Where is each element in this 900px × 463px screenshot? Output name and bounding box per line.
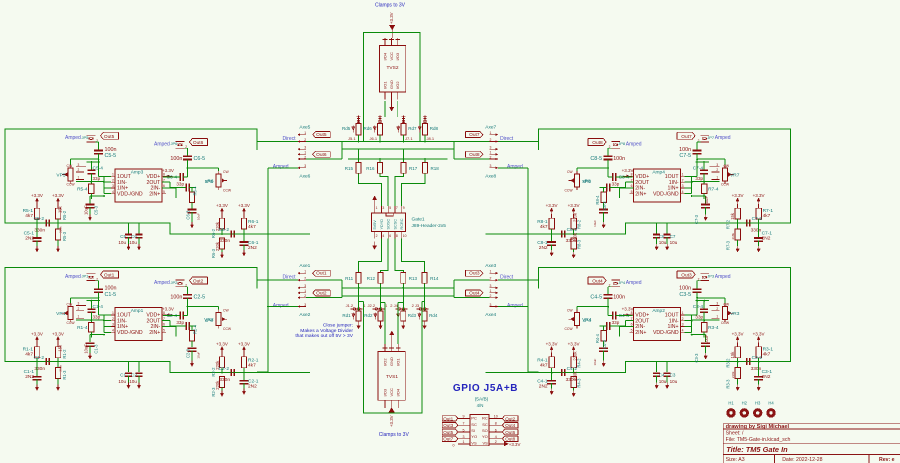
- svg-text:Out7: Out7: [443, 437, 453, 442]
- svg-text:VCC: VCC: [389, 388, 394, 397]
- svg-text:Amp1: Amp1: [131, 308, 144, 314]
- svg-text:4k7: 4k7: [248, 224, 256, 230]
- svg-text:TVS1: TVS1: [386, 374, 398, 380]
- svg-text:10uF: 10uF: [84, 344, 89, 354]
- svg-text:+3.3V: +3.3V: [31, 332, 43, 337]
- svg-text:10u: 10u: [129, 240, 137, 245]
- svg-text:C8-4: C8-4: [619, 175, 630, 181]
- svg-text:GPIO J5A+B: GPIO J5A+B: [453, 383, 518, 394]
- svg-text:1: 1: [304, 270, 306, 274]
- svg-text:Clamps to 3V: Clamps to 3V: [375, 2, 406, 8]
- svg-text:4k7: 4k7: [763, 213, 771, 219]
- svg-text:4/N: 4/N: [477, 403, 484, 408]
- svg-text:3: 3: [78, 302, 80, 306]
- svg-text:CW: CW: [223, 309, 229, 313]
- svg-text:10uF: 10uF: [593, 220, 597, 227]
- svg-text:R7-3: R7-3: [726, 240, 731, 250]
- svg-text:10uF: 10uF: [593, 358, 597, 365]
- svg-text:Rd6: Rd6: [364, 126, 373, 131]
- svg-text:Clamps to 3V: Clamps to 3V: [379, 432, 410, 438]
- svg-text:+3.3V: +3.3V: [753, 193, 765, 198]
- svg-text:2: 2: [490, 155, 492, 159]
- svg-text:CCW: CCW: [721, 182, 730, 186]
- svg-text:xP0: xP0: [205, 318, 214, 324]
- svg-text:2N2: 2N2: [539, 245, 548, 251]
- svg-text:Out6: Out6: [193, 140, 204, 146]
- svg-text:8: 8: [631, 311, 633, 315]
- svg-text:C3-5: C3-5: [679, 292, 691, 298]
- svg-text:5V5V: 5V5V: [373, 220, 377, 230]
- svg-text:10u: 10u: [129, 379, 137, 384]
- svg-text:J2.2: J2.2: [368, 303, 376, 308]
- svg-text:RC: RC: [482, 416, 488, 421]
- svg-text:VR1: VR1: [56, 311, 66, 317]
- svg-text:2N2: 2N2: [248, 245, 257, 251]
- svg-text:JP3: JP3: [707, 274, 715, 279]
- svg-text:Direct: Direct: [500, 274, 514, 280]
- svg-text:CCW: CCW: [721, 321, 730, 325]
- svg-text:1: 1: [682, 311, 684, 315]
- svg-text:VS: VS: [471, 440, 477, 445]
- svg-text:Amped: Amped: [507, 164, 523, 170]
- svg-text:7: 7: [396, 206, 398, 210]
- svg-text:C4-2: C4-2: [567, 366, 578, 372]
- svg-text:Amped: Amped: [273, 303, 289, 309]
- svg-text:JP6: JP6: [171, 141, 179, 146]
- svg-text:Out5: Out5: [443, 430, 453, 435]
- svg-text:C2-4: C2-4: [167, 313, 178, 319]
- svg-text:3: 3: [304, 303, 306, 307]
- svg-text:JP8: JP8: [618, 141, 626, 146]
- svg-text:Out8: Out8: [592, 140, 603, 146]
- svg-text:Rd3: Rd3: [408, 313, 417, 318]
- svg-text:5: 5: [631, 190, 633, 194]
- svg-text:+3.3V: +3.3V: [216, 342, 228, 347]
- svg-text:File: TM5-Gate-in.kicad_sch: File: TM5-Gate-in.kicad_sch: [726, 437, 791, 443]
- svg-text:10u: 10u: [659, 240, 667, 245]
- svg-text:R5-4: R5-4: [77, 186, 88, 192]
- svg-text:R3-3: R3-3: [726, 379, 731, 389]
- svg-text:C5-2: C5-2: [34, 216, 45, 222]
- svg-text:R5-2: R5-2: [62, 210, 67, 220]
- svg-text:Out4: Out4: [592, 279, 603, 285]
- svg-text:15k: 15k: [730, 351, 735, 359]
- svg-text:4k7: 4k7: [25, 213, 33, 219]
- svg-text:2: 2: [112, 178, 114, 182]
- svg-text:R18: R18: [431, 166, 440, 171]
- svg-text:Out2: Out2: [316, 290, 327, 296]
- svg-text:10u: 10u: [659, 379, 667, 384]
- svg-text:2: 2: [682, 317, 684, 321]
- svg-text:VDD-/GND: VDD-/GND: [653, 330, 679, 336]
- svg-text:Axe6: Axe6: [299, 173, 310, 179]
- svg-text:C2-2: C2-2: [219, 366, 230, 372]
- svg-text:C1-5: C1-5: [105, 292, 117, 298]
- svg-text:SI: SI: [471, 428, 475, 433]
- svg-text:1: 1: [304, 151, 306, 155]
- svg-text:Amped: Amped: [626, 280, 642, 286]
- svg-text:7: 7: [463, 422, 465, 426]
- svg-text:5: 5: [389, 206, 391, 210]
- svg-text:+3.3V: +3.3V: [52, 332, 64, 337]
- svg-text:0: 0: [453, 443, 455, 447]
- svg-text:10uF: 10uF: [704, 334, 709, 344]
- svg-text:2: 2: [490, 294, 492, 298]
- svg-text:Rd1: Rd1: [342, 313, 351, 318]
- svg-text:Out2: Out2: [193, 279, 204, 285]
- svg-text:6: 6: [495, 428, 497, 432]
- svg-text:PC: PC: [471, 416, 477, 421]
- svg-text:1: 1: [78, 314, 80, 318]
- svg-text:2IN+: 2IN+: [635, 191, 646, 197]
- svg-text:C6-3: C6-3: [186, 210, 191, 220]
- svg-text:4: 4: [682, 190, 684, 194]
- svg-text:R11: R11: [345, 276, 353, 281]
- svg-text:C1-3: C1-3: [94, 344, 99, 354]
- svg-text:100n: 100n: [170, 156, 182, 162]
- svg-text:SCSC: SCSC: [393, 219, 397, 230]
- svg-text:RCRC: RCRC: [400, 218, 404, 229]
- svg-text:CW: CW: [567, 170, 573, 174]
- svg-text:Close jumper:: Close jumper:: [323, 322, 353, 328]
- svg-text:10u: 10u: [670, 240, 678, 245]
- svg-text:C6-5: C6-5: [194, 156, 206, 162]
- svg-text:5: 5: [631, 329, 633, 333]
- svg-text:VR3: VR3: [730, 311, 740, 317]
- svg-text:1: 1: [463, 440, 465, 444]
- svg-text:Date: 2022-12-28: Date: 2022-12-28: [782, 457, 822, 463]
- svg-text:Amped: Amped: [154, 280, 170, 286]
- svg-text:I/O4: I/O4: [382, 52, 387, 60]
- svg-text:C2-5: C2-5: [194, 295, 206, 301]
- svg-text:Amped: Amped: [715, 135, 731, 141]
- svg-text:Axe3: Axe3: [485, 263, 496, 269]
- svg-text:Direct: Direct: [500, 136, 514, 142]
- svg-text:R8-4: R8-4: [595, 195, 600, 205]
- svg-text:C7-3: C7-3: [694, 214, 699, 224]
- svg-text:+3.3V: +3.3V: [162, 307, 174, 312]
- svg-text:+3.3V: +3.3V: [389, 12, 394, 24]
- svg-text:Amp2: Amp2: [652, 308, 665, 314]
- svg-text:+3.3V: +3.3V: [732, 332, 744, 337]
- svg-text:Amped: Amped: [273, 164, 289, 170]
- svg-text:100n: 100n: [105, 286, 117, 292]
- svg-text:Axe5: Axe5: [299, 125, 310, 131]
- svg-text:1: 1: [490, 131, 492, 135]
- svg-text:Out4: Out4: [469, 290, 480, 296]
- svg-text:3: 3: [682, 323, 684, 327]
- svg-text:I/O3: I/O3: [382, 388, 387, 396]
- svg-text:8: 8: [631, 173, 633, 177]
- svg-text:(5A/B): (5A/B): [475, 397, 489, 403]
- svg-text:1: 1: [376, 206, 378, 210]
- svg-text:8: 8: [163, 173, 165, 177]
- svg-text:+3.3V: +3.3V: [753, 332, 765, 337]
- svg-text:2: 2: [490, 138, 492, 142]
- svg-text:3: 3: [490, 284, 492, 288]
- svg-text:Size: A3: Size: A3: [726, 457, 745, 463]
- svg-text:H1: H1: [728, 401, 734, 406]
- svg-text:VP5: VP5: [56, 173, 65, 179]
- svg-text:4k7: 4k7: [248, 363, 256, 369]
- svg-text:Rd8: Rd8: [430, 126, 439, 131]
- svg-text:+3.3V: +3.3V: [622, 168, 634, 173]
- svg-text:J7.1: J7.1: [405, 136, 413, 141]
- svg-text:CCW: CCW: [223, 188, 232, 192]
- svg-text:R14: R14: [430, 276, 439, 281]
- svg-text:3: 3: [304, 164, 306, 168]
- svg-text:GND: GND: [389, 80, 394, 89]
- svg-text:Out6: Out6: [505, 430, 515, 435]
- svg-text:Out5: Out5: [104, 134, 115, 140]
- svg-text:R8-3: R8-3: [577, 239, 582, 249]
- svg-text:100n: 100n: [170, 295, 182, 301]
- svg-text:H4: H4: [768, 401, 774, 406]
- svg-text:+3.3V: +3.3V: [546, 342, 558, 347]
- svg-text:Out3: Out3: [681, 272, 692, 278]
- svg-text:100n: 100n: [679, 147, 691, 153]
- svg-text:CW: CW: [723, 164, 729, 168]
- svg-text:33p: 33p: [176, 320, 184, 325]
- svg-text:4: 4: [682, 329, 684, 333]
- svg-text:Gate1: Gate1: [412, 216, 425, 222]
- svg-text:C7-2: C7-2: [752, 216, 763, 222]
- svg-text:JP4: JP4: [618, 280, 626, 285]
- svg-text:Out3: Out3: [443, 423, 453, 428]
- svg-text:1: 1: [304, 131, 306, 135]
- svg-text:Amped: Amped: [154, 141, 170, 147]
- svg-text:4k7: 4k7: [540, 224, 548, 230]
- svg-text:I/O1: I/O1: [382, 81, 387, 89]
- svg-text:9: 9: [403, 206, 405, 210]
- svg-text:3: 3: [490, 164, 492, 168]
- svg-text:2: 2: [304, 138, 306, 142]
- svg-text:I/O4: I/O4: [396, 388, 401, 396]
- svg-text:I/O1: I/O1: [396, 358, 401, 366]
- svg-text:Axe2: Axe2: [299, 312, 310, 318]
- svg-text:C5-3: C5-3: [94, 205, 99, 215]
- svg-text:R2-2: R2-2: [211, 367, 216, 377]
- svg-text:4k7: 4k7: [763, 352, 771, 358]
- svg-text:5: 5: [463, 428, 465, 432]
- svg-text:C3-2: C3-2: [752, 355, 763, 361]
- svg-text:4: 4: [382, 234, 384, 238]
- svg-text:I/O2: I/O2: [395, 81, 400, 89]
- svg-text:+3.3V: +3.3V: [389, 415, 394, 427]
- svg-text:R7-4: R7-4: [708, 186, 719, 192]
- svg-text:Sheet: /: Sheet: /: [726, 430, 744, 436]
- svg-text:SC: SC: [482, 422, 488, 427]
- svg-text:C7-5: C7-5: [679, 153, 691, 159]
- svg-text:JP1: JP1: [82, 274, 90, 279]
- svg-text:C4-4: C4-4: [619, 313, 630, 319]
- svg-text:Out8: Out8: [469, 152, 480, 158]
- svg-text:CCW: CCW: [564, 188, 573, 192]
- svg-text:Out7: Out7: [469, 132, 480, 138]
- svg-text:Rd5: Rd5: [342, 126, 351, 131]
- svg-text:R1-4: R1-4: [77, 325, 88, 331]
- svg-text:330n: 330n: [34, 227, 45, 233]
- svg-text:2: 2: [112, 317, 114, 321]
- svg-text:3: 3: [490, 303, 492, 307]
- svg-text:33p: 33p: [612, 181, 620, 186]
- svg-text:R4-3: R4-3: [577, 378, 582, 388]
- svg-text:10u: 10u: [118, 379, 126, 384]
- svg-text:330n: 330n: [34, 366, 45, 372]
- svg-text:10uF: 10uF: [84, 205, 89, 215]
- svg-text:Out6: Out6: [316, 152, 327, 158]
- svg-text:2 J4: 2 J4: [390, 303, 398, 308]
- svg-text:2: 2: [716, 307, 718, 311]
- svg-text:Amped: Amped: [715, 274, 731, 280]
- svg-text:3: 3: [304, 146, 306, 150]
- svg-text:Amped: Amped: [626, 141, 642, 147]
- svg-text:9: 9: [463, 415, 465, 419]
- svg-text:2: 2: [304, 155, 306, 159]
- svg-text:R7-2: R7-2: [726, 219, 731, 229]
- svg-text:+3.3V: +3.3V: [568, 342, 580, 347]
- svg-text:33p: 33p: [612, 320, 620, 325]
- svg-text:3: 3: [112, 184, 114, 188]
- svg-text:3: 3: [304, 284, 306, 288]
- svg-text:1: 1: [716, 314, 718, 318]
- svg-text:Out1: Out1: [316, 271, 327, 277]
- svg-text:Out1: Out1: [104, 272, 115, 278]
- svg-text:GND: GND: [389, 357, 394, 366]
- svg-text:+3.3V: +3.3V: [216, 203, 228, 208]
- svg-text:Out7: Out7: [681, 134, 692, 140]
- svg-text:218k: 218k: [731, 371, 735, 378]
- svg-text:15k: 15k: [730, 212, 735, 220]
- svg-text:5: 5: [163, 329, 165, 333]
- svg-text:2N2: 2N2: [539, 384, 548, 390]
- svg-text:8: 8: [396, 234, 398, 238]
- svg-text:3: 3: [716, 163, 718, 167]
- svg-text:SOSC: SOSC: [387, 218, 391, 229]
- svg-text:C3: C3: [670, 373, 676, 378]
- svg-text:10uF: 10uF: [704, 196, 709, 206]
- svg-text:Axe4: Axe4: [485, 312, 496, 318]
- svg-text:+3.3V: +3.3V: [546, 203, 558, 208]
- svg-text:4: 4: [112, 329, 114, 333]
- svg-text:xP6: xP6: [205, 179, 214, 185]
- svg-text:3: 3: [463, 435, 465, 439]
- svg-text:3: 3: [78, 163, 80, 167]
- svg-text:C6-2: C6-2: [219, 227, 230, 233]
- svg-text:R4-2: R4-2: [577, 358, 582, 368]
- svg-text:Amped: Amped: [507, 303, 523, 309]
- svg-text:Out5: Out5: [316, 132, 327, 138]
- svg-text:2: 2: [304, 294, 306, 298]
- svg-text:R3-2: R3-2: [726, 358, 731, 368]
- svg-text:Direct: Direct: [282, 274, 296, 280]
- svg-text:1: 1: [112, 173, 114, 177]
- svg-text:5: 5: [163, 190, 165, 194]
- svg-text:+3.3V: +3.3V: [162, 168, 174, 173]
- svg-text:3: 3: [682, 184, 684, 188]
- svg-text:J5.1: J5.1: [348, 136, 356, 141]
- svg-text:2IN+: 2IN+: [149, 191, 160, 197]
- svg-text:+3.3V: +3.3V: [238, 203, 250, 208]
- svg-text:C3-3: C3-3: [694, 353, 699, 363]
- svg-text:+3.3V: +3.3V: [31, 193, 43, 198]
- svg-text:TVS2: TVS2: [387, 65, 399, 71]
- svg-text:R2-4: R2-4: [193, 324, 198, 334]
- svg-text:Out1: Out1: [443, 416, 453, 421]
- svg-text:2: 2: [495, 440, 497, 444]
- svg-text:3: 3: [382, 206, 384, 210]
- svg-text:+3.3V: +3.3V: [622, 307, 634, 312]
- svg-text:xP8: xP8: [583, 179, 592, 185]
- svg-text:3: 3: [490, 146, 492, 150]
- svg-text:R8-2: R8-2: [577, 219, 582, 229]
- svg-text:1: 1: [112, 311, 114, 315]
- svg-text:+3.3V: +3.3V: [509, 442, 521, 447]
- svg-text:1: 1: [490, 151, 492, 155]
- svg-text:C1-2: C1-2: [34, 355, 45, 361]
- svg-text:2N2: 2N2: [248, 384, 257, 390]
- svg-text:CCW: CCW: [564, 327, 573, 331]
- svg-text:33p: 33p: [176, 181, 184, 186]
- svg-text:R6-2: R6-2: [211, 228, 216, 238]
- svg-text:100n: 100n: [105, 147, 117, 153]
- svg-text:330n: 330n: [751, 227, 762, 233]
- svg-text:Axe1: Axe1: [299, 263, 310, 269]
- svg-text:VDD-/GND: VDD-/GND: [653, 191, 679, 197]
- svg-text:R5-3: R5-3: [62, 231, 67, 241]
- svg-text:Rd4: Rd4: [429, 313, 438, 318]
- svg-text:2: 2: [376, 234, 378, 238]
- svg-text:1: 1: [682, 173, 684, 177]
- svg-text:Axe7: Axe7: [485, 125, 496, 131]
- svg-text:2: 2: [304, 276, 306, 280]
- svg-text:+3.3V: +3.3V: [568, 203, 580, 208]
- svg-text:Out3: Out3: [469, 271, 480, 277]
- svg-text:1: 1: [78, 176, 80, 180]
- svg-text:2: 2: [78, 307, 80, 311]
- svg-text:CW: CW: [723, 303, 729, 307]
- svg-text:CW: CW: [567, 309, 573, 313]
- svg-text:2 J3: 2 J3: [412, 303, 420, 308]
- svg-text:R17: R17: [409, 166, 418, 171]
- svg-text:+3.3V: +3.3V: [238, 342, 250, 347]
- svg-text:10u: 10u: [118, 240, 126, 245]
- svg-text:C4-3: C4-3: [602, 339, 607, 349]
- svg-text:8: 8: [495, 422, 497, 426]
- svg-text:Rev: e: Rev: e: [879, 457, 895, 463]
- svg-text:4k7: 4k7: [540, 363, 548, 369]
- svg-text:J8.1: J8.1: [427, 136, 435, 141]
- svg-text:R6-4: R6-4: [193, 186, 198, 196]
- svg-text:R6-3: R6-3: [211, 248, 216, 258]
- svg-text:10uF: 10uF: [197, 213, 201, 220]
- svg-text:1: 1: [304, 289, 306, 293]
- svg-text:Amp4: Amp4: [652, 170, 665, 176]
- svg-text:10u: 10u: [670, 379, 678, 384]
- svg-text:Amped: Amped: [65, 135, 81, 141]
- svg-text:R1-2: R1-2: [62, 349, 67, 359]
- svg-text:CW: CW: [67, 303, 73, 307]
- svg-text:3: 3: [112, 323, 114, 327]
- svg-text:Axe8: Axe8: [485, 173, 496, 179]
- svg-text:Out2: Out2: [505, 416, 515, 421]
- svg-text:2: 2: [490, 276, 492, 280]
- svg-text:VR7: VR7: [730, 173, 740, 179]
- svg-text:100n: 100n: [613, 156, 625, 162]
- svg-text:330n: 330n: [751, 366, 762, 372]
- svg-text:Makes a Voltage Divider: Makes a Voltage Divider: [300, 328, 353, 334]
- svg-text:10: 10: [403, 234, 407, 238]
